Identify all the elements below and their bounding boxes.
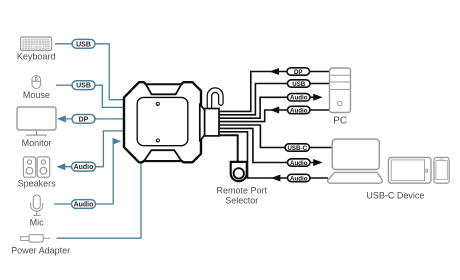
wire mic to Audio pill	[54, 203, 72, 205]
USB-C pill (laptop)	[285, 144, 310, 152]
cable USB to PC	[219, 84, 330, 115]
wire switch to speakers (audio out)	[60, 131, 125, 167]
cable audio to PC	[219, 97, 314, 118]
svg-text:PC: PC	[333, 116, 347, 127]
wire power adapter to switch	[57, 164, 142, 239]
laptop icon	[328, 139, 383, 183]
speakers icon	[23, 157, 49, 177]
arrow into monitor	[57, 115, 66, 122]
arrow right on audio cable to laptop	[313, 159, 323, 166]
Audio pill (from PC)	[288, 106, 311, 114]
wire keyboard to USB pill	[55, 43, 72, 45]
cable hook	[209, 90, 220, 109]
USB pill (PC)	[288, 80, 311, 88]
Audio pill (speakers)	[72, 162, 96, 171]
cable DP to PC	[219, 72, 330, 112]
svg-text:Audio: Audio	[74, 202, 94, 209]
keyboard icon	[21, 37, 52, 51]
svg-text:Monitor: Monitor	[22, 138, 52, 148]
svg-text:Audio: Audio	[74, 164, 94, 171]
USB pill (mouse)	[72, 81, 95, 90]
cable audio from PC	[219, 110, 330, 122]
Audio pill (to laptop)	[288, 159, 311, 167]
switch top grip notch	[146, 84, 181, 94]
DP pill (PC)	[287, 68, 310, 76]
svg-text:DP: DP	[294, 69, 303, 76]
wire USB pill to switch (keyboard)	[95, 44, 125, 100]
svg-text:USB-C Device: USB-C Device	[366, 191, 424, 201]
wire USB pill to switch (mouse)	[95, 85, 125, 107]
svg-text:Speakers: Speakers	[18, 179, 57, 189]
Audio pill (to PC)	[288, 94, 311, 102]
svg-text:Remote Port: Remote Port	[217, 185, 268, 195]
svg-text:Selector: Selector	[225, 195, 258, 205]
svg-text:Audio: Audio	[290, 107, 308, 114]
arrow right on audio cable to PC	[313, 94, 323, 101]
switch side flange	[200, 104, 205, 141]
svg-text:Mouse: Mouse	[23, 90, 50, 100]
svg-text:USB-C: USB-C	[287, 145, 307, 152]
switch top plate	[137, 97, 188, 145]
arrow left on DP cable	[270, 68, 280, 75]
wire mouse to USB pill	[56, 84, 72, 86]
Audio pill (mic)	[72, 200, 96, 209]
cable audio to laptop	[219, 128, 314, 162]
arrow into switch from mic	[113, 138, 121, 145]
USB pill (keyboard)	[72, 39, 95, 48]
monitor icon	[17, 107, 56, 135]
svg-text:Power Adapter: Power Adapter	[11, 246, 70, 256]
wire switch to monitor (DP)	[61, 118, 125, 120]
tablet icon	[388, 157, 431, 183]
wire to remote port selector	[219, 135, 238, 161]
svg-text:USB: USB	[292, 81, 306, 88]
svg-text:Keyboard: Keyboard	[17, 52, 56, 62]
remote port selector button	[231, 162, 247, 181]
arrow into speakers	[57, 163, 66, 170]
cable audio from laptop	[219, 132, 328, 178]
Audio pill (from laptop)	[288, 174, 311, 182]
arrow left on audio cable from laptop	[271, 175, 281, 182]
wire Audio pill to switch (mic)	[95, 141, 115, 204]
phone icon	[434, 157, 449, 183]
screw bottom	[156, 139, 159, 142]
PC tower icon	[330, 68, 351, 113]
svg-text:Audio: Audio	[290, 95, 308, 102]
svg-text:Audio: Audio	[290, 160, 308, 167]
cable USB-C to laptop	[219, 125, 333, 148]
mic icon	[31, 195, 43, 215]
mouse icon	[32, 76, 41, 89]
cable connector block	[205, 109, 219, 136]
DP pill (monitor)	[72, 115, 95, 124]
svg-text:USB: USB	[76, 83, 91, 90]
switch bottom grip notch	[144, 150, 181, 161]
arrow left on audio cable from PC	[270, 107, 279, 114]
svg-text:DP: DP	[79, 116, 89, 123]
KVM switch body	[124, 82, 201, 162]
svg-text:Audio: Audio	[290, 175, 308, 182]
svg-text:Mic: Mic	[30, 218, 44, 228]
svg-text:USB: USB	[76, 41, 91, 48]
screw top	[156, 102, 159, 105]
power adapter icon	[21, 235, 50, 242]
